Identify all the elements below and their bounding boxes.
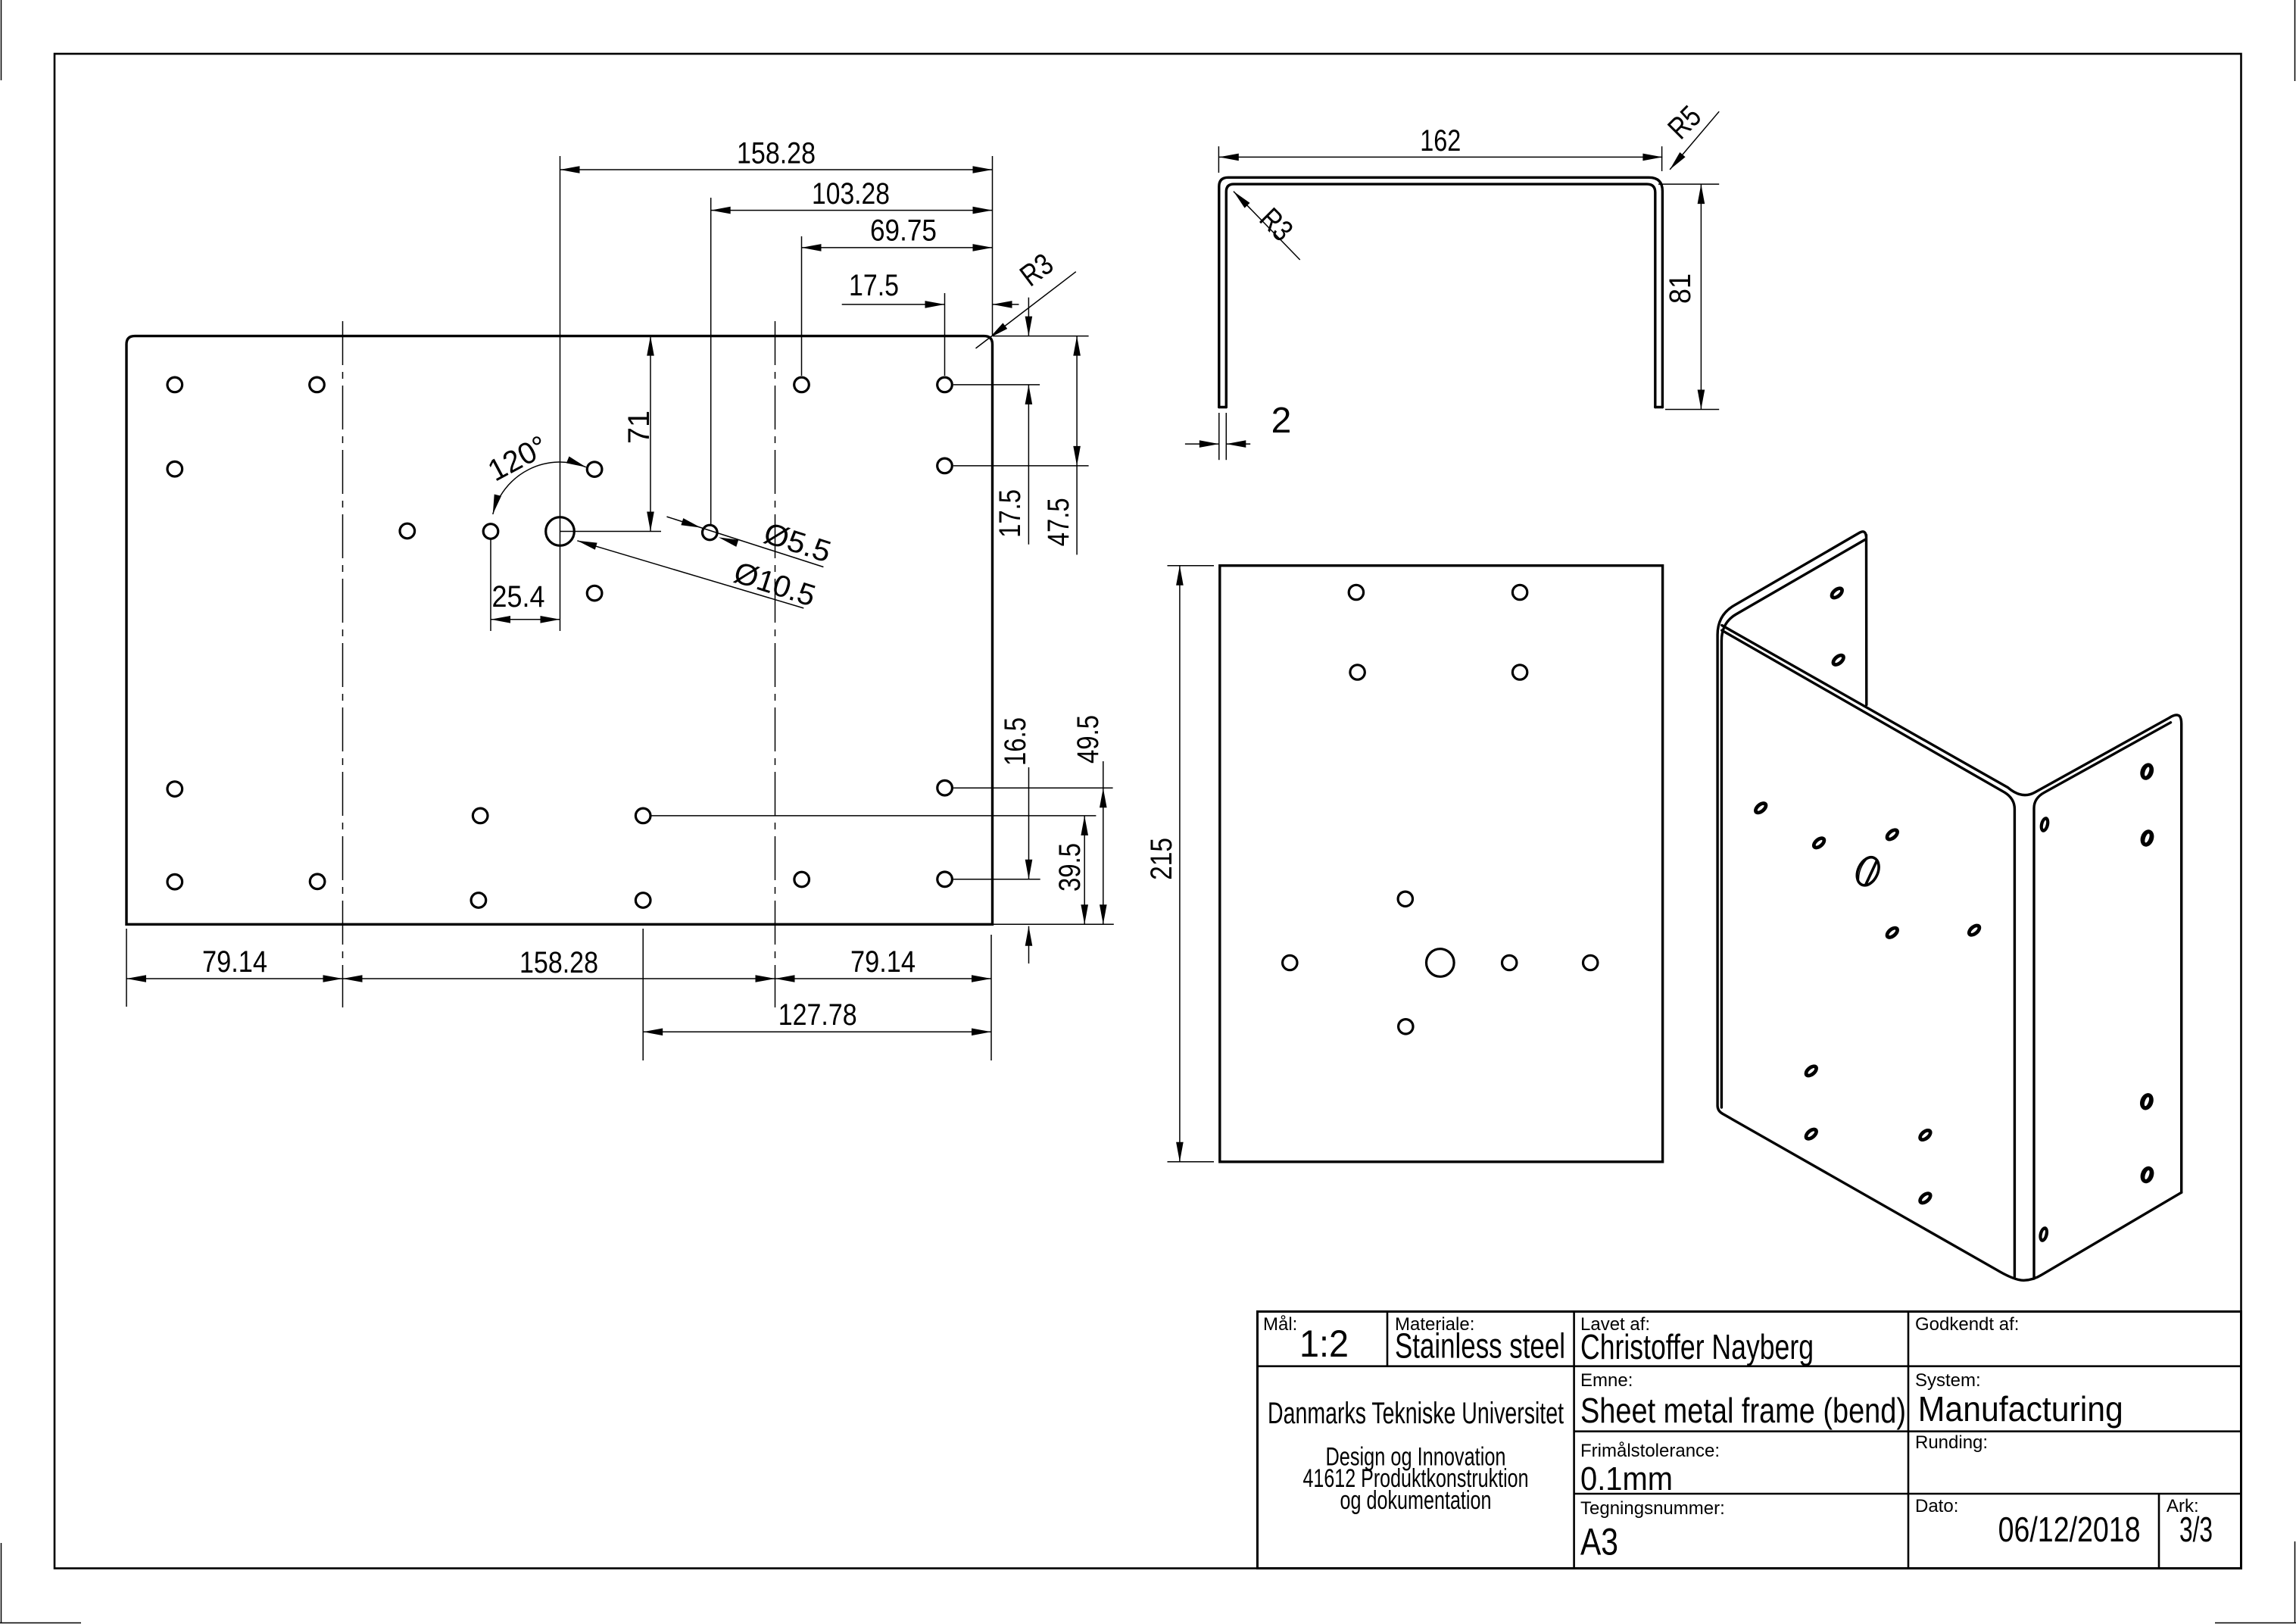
svg-text:Frimålstolerance:: Frimålstolerance: [1580, 1441, 1720, 1461]
title block frame [1258, 1312, 2241, 1569]
dimension 158.28 top [560, 169, 993, 170]
svg-text:17.5: 17.5 [849, 269, 899, 302]
isometric view: left flap free edge [1865, 536, 1868, 705]
isometric view: right flap top edge inner + right bend vertical [2034, 723, 2171, 1279]
flat view: right bend line [775, 321, 776, 1007]
svg-text:Danmarks Tekniske Universitet: Danmarks Tekniske Universitet [1268, 1397, 1564, 1430]
extension line plate left bottom [126, 929, 127, 1007]
extension line hole column x1247 [944, 293, 946, 376]
dimension 17.5 right vertical [1028, 298, 1029, 336]
svg-text:127.78: 127.78 [778, 998, 857, 1032]
svg-text:120°: 120° [482, 429, 553, 488]
leader R3 flat view [976, 272, 1076, 348]
isometric view: web big hole [1853, 854, 1883, 889]
isometric view: left flap top edge inner line [1721, 540, 1864, 1108]
svg-text:158.28: 158.28 [737, 137, 816, 170]
isometric view: web top edge outer + right bend V + right flap top edge + right edge [1722, 626, 2182, 1193]
svg-text:49.5: 49.5 [1072, 715, 1105, 764]
svg-text:Sheet metal frame (bend): Sheet metal frame (bend) [1580, 1391, 1906, 1430]
dimension 120 degree arc [493, 462, 586, 514]
dimension 215 [1168, 565, 1215, 567]
extension line plate right bottom [990, 935, 992, 1060]
extension line plate right edge top [992, 156, 994, 335]
extension line hole column x938 [710, 198, 712, 524]
isometric view: left flap holes [1827, 584, 1846, 602]
flat view: left bend line [342, 321, 344, 1007]
svg-text:17.5: 17.5 [994, 489, 1027, 538]
svg-text:Christoffer Nayberg: Christoffer Nayberg [1580, 1327, 1814, 1366]
svg-text:R3: R3 [1014, 247, 1059, 292]
leader R3 channel [1234, 192, 1300, 260]
dimension 162 [1218, 146, 1219, 173]
svg-text:79.14: 79.14 [202, 945, 267, 979]
svg-text:0.1mm: 0.1mm [1580, 1460, 1673, 1498]
extension line hole row y1161 right [953, 879, 1040, 880]
dimension 81 [1658, 183, 1719, 185]
svg-text:69.75: 69.75 [870, 214, 937, 248]
svg-text:25.4: 25.4 [492, 580, 545, 614]
title block grid lines [1258, 1365, 2241, 1367]
crop mark top-right [2294, 0, 2296, 81]
svg-text:R3: R3 [1253, 201, 1299, 248]
isometric view: web holes [1752, 799, 1770, 817]
crop mark bottom-right [2294, 1541, 2296, 1623]
svg-text:158.28: 158.28 [519, 946, 598, 979]
extension line top edge right [993, 336, 1089, 337]
dimension 49.5 [1103, 761, 1104, 924]
crop mark bottom-left [1, 1543, 2, 1623]
isometric view: left flap top edge outer + left edge outer + web bottom edge + bend + right flap bottom edge [1717, 532, 2182, 1280]
flat view: small holes O5.5 [167, 377, 182, 392]
dimension 47.5 right vertical [1076, 336, 1078, 555]
svg-text:System:: System: [1915, 1370, 1981, 1391]
svg-text:Emne:: Emne: [1580, 1370, 1633, 1391]
dimension 127.78 [643, 1031, 991, 1032]
extension line hole row y508 right [953, 384, 1040, 386]
U-channel leg end caps [1219, 406, 1227, 408]
dimension 16.5 [1028, 767, 1030, 879]
extension line plate bottom right [993, 923, 1114, 925]
svg-text:Stainless steel: Stainless steel [1395, 1326, 1565, 1366]
svg-text:1:2: 1:2 [1299, 1323, 1349, 1365]
svg-text:Tegningsnummer:: Tegningsnummer: [1580, 1498, 1725, 1519]
isometric view: right flap holes [2138, 761, 2156, 782]
svg-text:Dato:: Dato: [1915, 1496, 1958, 1516]
dimension 158.28 bottom [343, 978, 775, 979]
leader O10.5 [577, 541, 803, 608]
svg-text:81: 81 [1664, 273, 1697, 304]
dimension 79.14 right [775, 978, 992, 979]
svg-text:39.5: 39.5 [1053, 843, 1087, 892]
svg-text:47.5: 47.5 [1042, 498, 1075, 546]
svg-text:A3: A3 [1580, 1521, 1618, 1563]
dimension 79.14 left [126, 978, 343, 979]
U-channel inner profile [1226, 184, 1655, 407]
flat view: plate outline [126, 336, 993, 925]
leader R5 [1670, 111, 1719, 170]
svg-text:Godkendt af:: Godkendt af: [1915, 1314, 2019, 1335]
crop mark top-left [1, 0, 2, 80]
svg-text:162: 162 [1420, 124, 1461, 158]
svg-text:R5: R5 [1661, 99, 1708, 145]
svg-text:2: 2 [1271, 401, 1292, 441]
dimension 25.4 [490, 539, 491, 631]
extension line hole row y1077 long [651, 815, 1096, 817]
svg-text:Manufacturing: Manufacturing [1918, 1389, 2123, 1429]
svg-text:215: 215 [1145, 838, 1178, 880]
flat view: big hole O10.5 [546, 517, 575, 546]
svg-text:06/12/2018: 06/12/2018 [1998, 1510, 2141, 1549]
svg-text:Runding:: Runding: [1915, 1432, 1988, 1453]
dimension 2 (thickness) [1218, 413, 1220, 460]
svg-text:3/3: 3/3 [2179, 1510, 2213, 1549]
extension line hole row y615 right [953, 465, 1089, 467]
dimension 69.75 [802, 247, 993, 248]
extension line hole row y1040 right [953, 787, 1113, 789]
front view big hole [1427, 949, 1455, 977]
svg-text:og dokumentation: og dokumentation [1340, 1486, 1492, 1515]
leader O5.5 [667, 517, 824, 567]
extension line hole column x1058 [801, 236, 803, 376]
svg-text:Ø5.5: Ø5.5 [760, 517, 834, 569]
dimension 71 [650, 336, 651, 532]
dimension 39.5 [1084, 816, 1085, 924]
U-channel outer profile [1219, 177, 1663, 407]
svg-text:71: 71 [622, 411, 656, 444]
front view small holes [1349, 585, 1363, 599]
dimension 17.5 top [842, 304, 945, 305]
svg-text:16.5: 16.5 [999, 717, 1032, 766]
extension line hole column x849 bottom [642, 929, 644, 1060]
svg-text:103.28: 103.28 [812, 177, 890, 211]
svg-text:Mål:: Mål: [1263, 1314, 1297, 1335]
svg-text:79.14: 79.14 [850, 945, 916, 979]
extension line big-hole column [560, 156, 561, 631]
isometric view: web top edge inner + left bend vertical [1722, 630, 2015, 1276]
front view rectangle [1220, 566, 1663, 1162]
dimension 103.28 [711, 210, 993, 211]
